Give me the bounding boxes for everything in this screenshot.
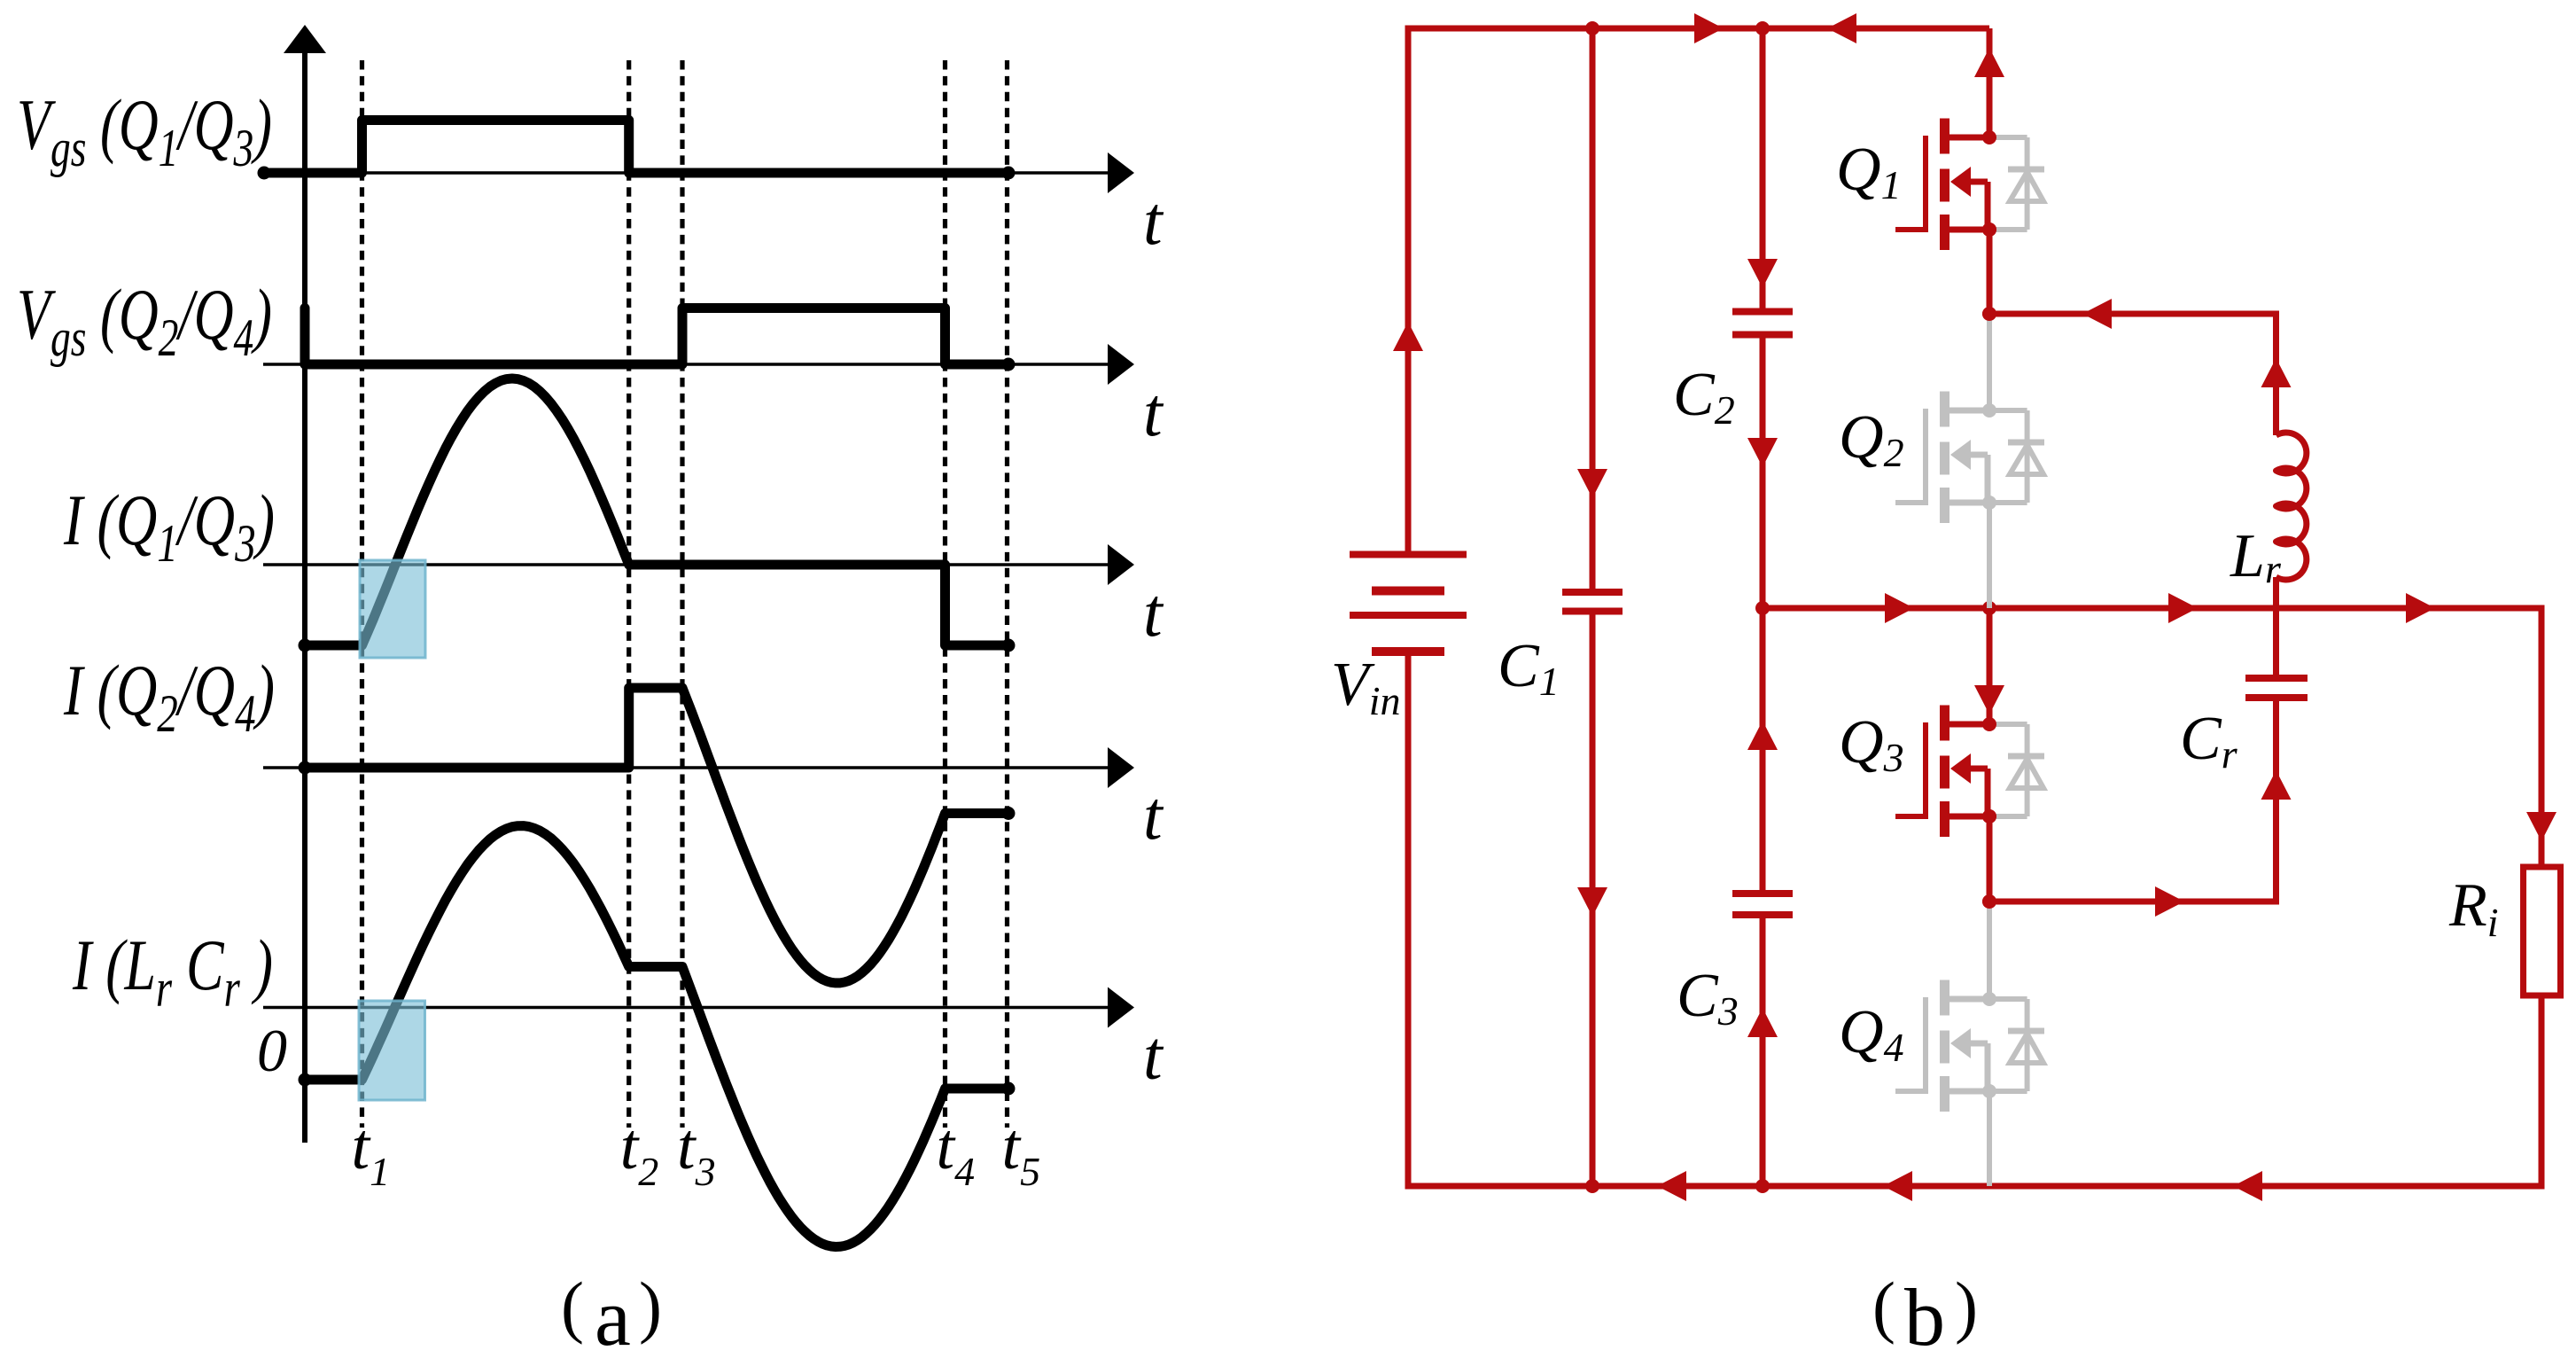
svg-text:t: t: [1143, 574, 1164, 651]
svg-text:C2: C2: [1673, 361, 1735, 433]
svg-text:): ): [1955, 1268, 1978, 1345]
svg-text:t4: t4: [937, 1111, 976, 1194]
svg-text:a: a: [595, 1272, 631, 1362]
svg-text:t5: t5: [1002, 1111, 1041, 1194]
svg-text:Q1: Q1: [1836, 136, 1902, 207]
svg-text:Vgs (Q1/Q3): Vgs (Q1/Q3): [17, 84, 272, 177]
svg-text:Q2: Q2: [1839, 403, 1904, 475]
svg-text:C3: C3: [1677, 962, 1739, 1034]
svg-text:Vin: Vin: [1331, 651, 1401, 723]
svg-text:Q4: Q4: [1839, 998, 1904, 1070]
svg-text:I (Q2/Q4): I (Q2/Q4): [63, 650, 275, 743]
svg-text:0: 0: [257, 1017, 287, 1084]
svg-text:t1: t1: [352, 1111, 391, 1194]
svg-text:t: t: [1143, 373, 1164, 450]
svg-text:Ri: Ri: [2448, 871, 2499, 945]
svg-text:b: b: [1904, 1272, 1945, 1362]
svg-text:t2: t2: [620, 1111, 659, 1194]
svg-text:Cr: Cr: [2180, 705, 2238, 777]
svg-text:): ): [639, 1268, 662, 1345]
svg-text:t: t: [1143, 1017, 1164, 1094]
svg-text:(: (: [1872, 1268, 1895, 1345]
svg-text:t3: t3: [677, 1111, 716, 1194]
svg-text:t: t: [1143, 777, 1164, 854]
svg-text:I (Lr Cr ): I (Lr Cr ): [72, 925, 273, 1018]
svg-text:I (Q1/Q3): I (Q1/Q3): [63, 480, 275, 573]
svg-text:(: (: [561, 1268, 584, 1345]
svg-text:C1: C1: [1498, 632, 1560, 704]
svg-text:t: t: [1143, 182, 1164, 259]
svg-text:Vgs (Q2/Q4): Vgs (Q2/Q4): [17, 274, 272, 367]
svg-text:Lr: Lr: [2230, 522, 2282, 591]
svg-text:Q3: Q3: [1839, 708, 1904, 780]
